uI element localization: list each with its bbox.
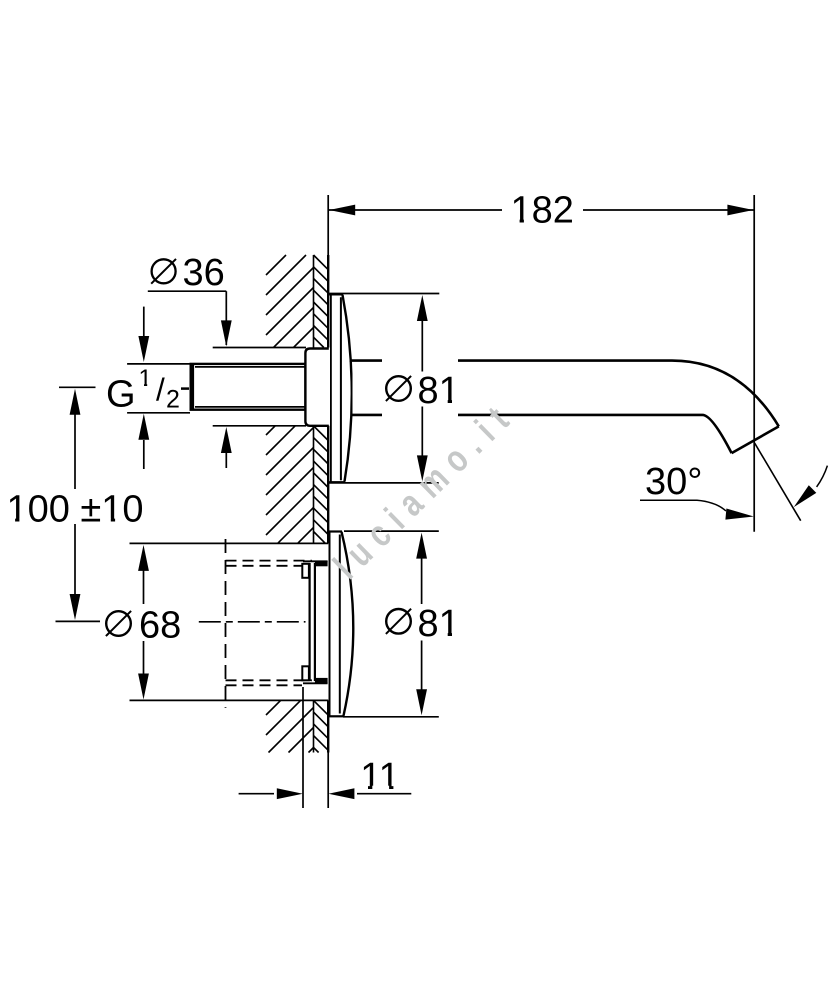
- escutcheon upper: dome profile curve: [343, 295, 352, 482]
- wall finished-surface line (band left): [313, 255, 315, 348]
- wall face line: [327, 255, 329, 348]
- svg-text:100 ±10: 100 ±10: [6, 489, 143, 531]
- pipe thread minor lines: [195, 366, 305, 368]
- spout bottom outline: [351, 415, 732, 453]
- dim diameter 81 upper: line + arrows: [417, 295, 428, 321]
- sleeve seal top (filled): [315, 561, 328, 566]
- escutcheon upper: extension lines for diameter 81: [328, 293, 439, 295]
- dim diameter 81 lower: line + arrows: [416, 533, 427, 559]
- retaining clip tab top: [302, 564, 309, 578]
- dim 30 degrees: angular arc right + arrow: [817, 466, 828, 487]
- spout top outline: [350, 361, 779, 427]
- dim G1/2: arrows: [143, 307, 145, 336]
- svg-text:/: /: [156, 372, 165, 408]
- G1/2 threaded pipe stub: [191, 364, 306, 410]
- watermark: [326, 392, 524, 587]
- wall opening edges upper (pipe): [213, 347, 306, 349]
- svg-text:30°: 30°: [645, 461, 702, 503]
- sleeve cap bottom line: [303, 682, 328, 684]
- dim 100±10: top tick: [59, 386, 96, 388]
- dim 30 degrees: flow direction line: [755, 443, 801, 521]
- hidden valve body dashed top edges: [226, 560, 312, 562]
- dim 100±10: line + arrows: [70, 389, 81, 415]
- escutcheon lower: inner front line: [339, 535, 341, 714]
- dim diameter 36: leader: [148, 290, 227, 292]
- escutcheon lower: top and bottom edges: [328, 530, 342, 532]
- dim 11: dimension line + arrows: [239, 793, 274, 795]
- escutcheon upper: back line at wall: [330, 294, 332, 484]
- escutcheon lower: dome profile curve: [342, 532, 354, 716]
- mask base-serifs of digit 1 (font shape fix): [512, 219, 520, 223]
- dim diameter 68: line + arrows: [138, 545, 149, 571]
- dim diameter 36: text: [152, 259, 176, 283]
- svg-text:182: 182: [510, 190, 573, 232]
- svg-text:68: 68: [139, 605, 181, 647]
- sleeve seal bottom (filled): [315, 678, 328, 683]
- escutcheon lower: back line at wall: [329, 531, 331, 717]
- dim 11: extension lines: [302, 687, 304, 808]
- svg-text:2: 2: [166, 386, 180, 414]
- spout outlet face: [732, 426, 779, 453]
- dim diameter 36: lower arrow: [225, 452, 227, 468]
- pipe end cap thick line: [191, 364, 195, 411]
- hidden valve body dashed left edge: [225, 539, 227, 708]
- spout body (white fill over dome curve): [353, 362, 778, 453]
- protection sleeve front walls: [309, 563, 311, 681]
- wall opening edges lower (valve) + diameter 68 extension lines: [130, 542, 329, 544]
- mounting nut at wall: [305, 349, 328, 426]
- escutcheon upper: top and bottom edges: [329, 293, 343, 295]
- svg-text:81: 81: [418, 603, 460, 645]
- svg-text:81: 81: [418, 370, 460, 412]
- valve centerline (dash-dot): [199, 621, 306, 623]
- wall coarse hatch: [266, 255, 314, 753]
- retaining clip tab bottom: [302, 666, 309, 680]
- dim 182: extension lines: [327, 195, 329, 255]
- svg-text:G: G: [106, 374, 136, 416]
- escutcheon lower: extension lines for diameter 81: [344, 530, 439, 532]
- dim diameter 81 upper: text: [386, 376, 411, 401]
- hidden valve body dashed bottom edges: [226, 679, 312, 681]
- dim diameter 68: text: [106, 611, 131, 636]
- svg-text:11: 11: [360, 756, 399, 798]
- svg-text:1: 1: [139, 365, 152, 392]
- dim 30 degrees: leader with arrow to vertical line: [640, 500, 726, 511]
- dim diameter 81 lower: text: [386, 609, 411, 634]
- dim 100±10: bottom tick: [56, 620, 101, 622]
- wall fine plaster band hatch: [314, 255, 329, 753]
- clearing box behind upper diameter-81 label: [382, 352, 458, 420]
- svg-text:36: 36: [183, 252, 225, 294]
- sleeve cap top line: [303, 560, 328, 562]
- dim G1/2: extension lines: [127, 363, 191, 365]
- dim 182: dimension line + arrows: [329, 209, 502, 211]
- escutcheon upper: inner front line: [340, 297, 342, 480]
